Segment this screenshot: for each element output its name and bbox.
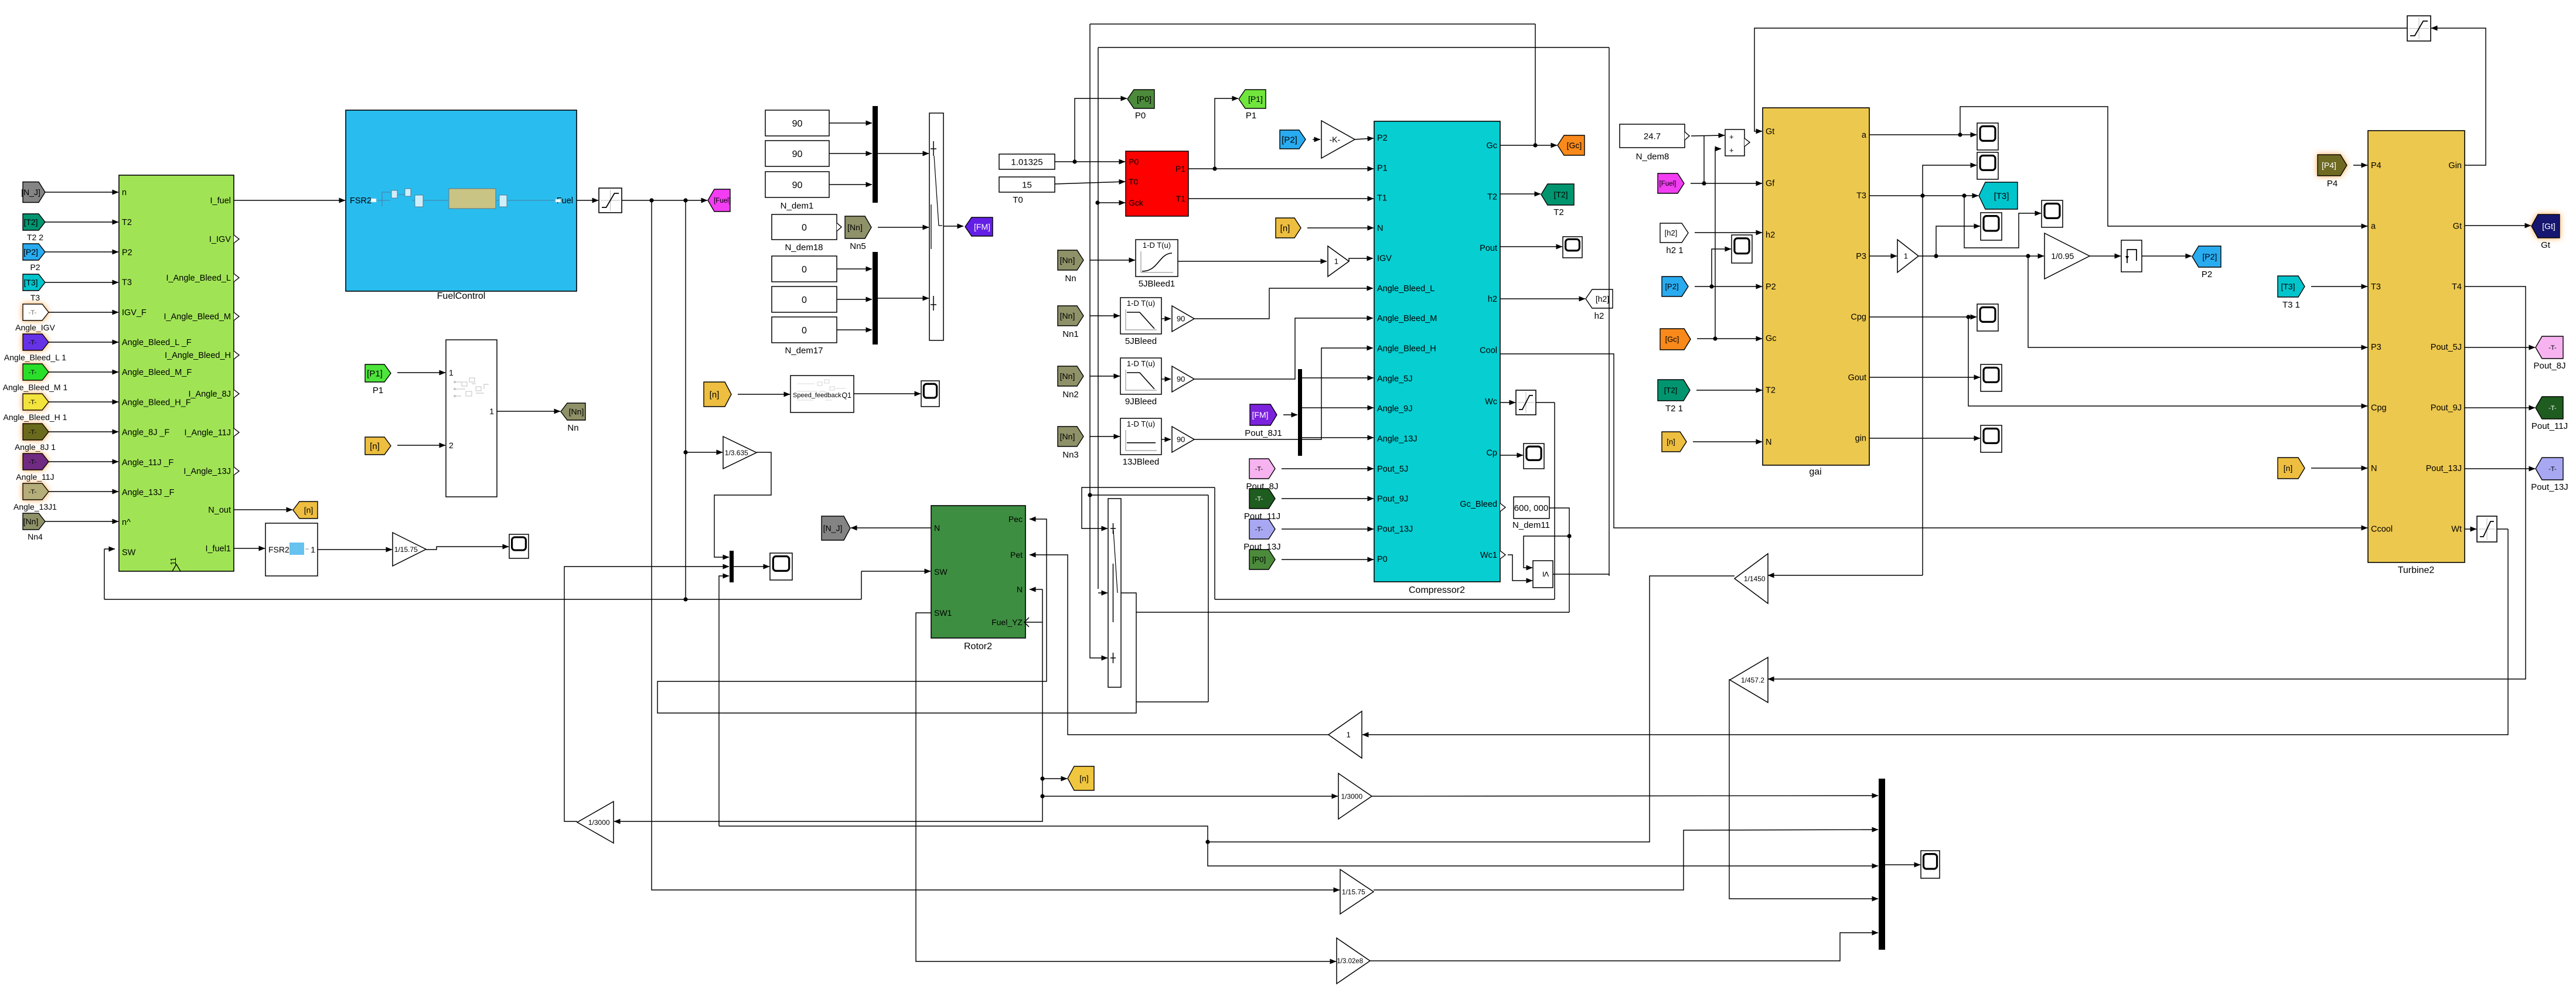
svg-text:[n]: [n]	[304, 506, 314, 515]
wire mux3 to scope	[734, 566, 769, 567]
wire mux to Angle_5J	[1302, 377, 1374, 378]
wire P0 junction to P0 goto	[1075, 98, 1127, 162]
svg-text:[P0]: [P0]	[1252, 555, 1266, 564]
gain 1/3000 (to mux5)	[1338, 773, 1372, 819]
constant 90 (N_dem1 row 3)	[765, 172, 829, 197]
wire n feedback vertical x1779	[1025, 589, 1045, 820]
goto tag n (rotor)	[1068, 766, 1094, 790]
svg-text:Angle_8J _F: Angle_8J _F	[122, 428, 170, 438]
wire from tag Nn4 to FuelSystem	[45, 521, 118, 522]
svg-text:[T3]: [T3]	[2281, 282, 2295, 291]
wire P2 tag to gai P2	[1695, 284, 1762, 288]
svg-text:Nn3: Nn3	[1062, 450, 1079, 460]
wire gai Cpg to scope	[1869, 315, 1977, 319]
subsystem ambient (red block)	[1126, 151, 1188, 216]
svg-text:90: 90	[1177, 435, 1185, 444]
wire switch2 out loop	[657, 519, 1136, 713]
svg-text:-T-: -T-	[1255, 466, 1263, 473]
svg-text:T3 1: T3 1	[2282, 300, 2300, 310]
lookup table 5JBleed1	[1136, 240, 1178, 277]
subsystem Rotor2 (green block)	[931, 506, 1029, 638]
saturation block Fuel limiter	[599, 188, 622, 213]
from tag n (gai)	[1662, 432, 1686, 452]
store read Angle_13J1	[23, 483, 49, 500]
svg-text:Pout_13J: Pout_13J	[2531, 482, 2568, 492]
goto tag h2	[1586, 289, 1613, 308]
svg-text:+: +	[1729, 146, 1734, 155]
svg-text:[Nn]: [Nn]	[1060, 311, 1075, 320]
svg-text:I_fuel: I_fuel	[210, 196, 231, 206]
wire mux5 to scope	[1885, 864, 1920, 865]
svg-text:h2: h2	[1766, 231, 1775, 240]
svg-text:N: N	[934, 523, 940, 533]
wire Pout_13J to compressor Pout_13J	[1282, 528, 1374, 530]
svg-text:Ccool: Ccool	[2371, 524, 2393, 534]
wire Pout_8J to compressor Pout_5J	[1282, 468, 1374, 469]
svg-text:T0: T0	[1013, 195, 1023, 205]
svg-text:[P2]: [P2]	[1282, 135, 1297, 145]
wire P1 junction to P1 goto	[1215, 98, 1238, 169]
subsystem gai (yellow block)	[1763, 108, 1869, 465]
goto tag FM	[965, 217, 993, 236]
svg-text:Nn2: Nn2	[1062, 390, 1079, 400]
svg-text:I_fuel1: I_fuel1	[205, 544, 231, 554]
constant 0 N_dem18	[772, 214, 841, 240]
gain 1/15.75 (FSR2 branch)	[393, 533, 426, 566]
from tag P2 (compressor)	[1280, 130, 1306, 149]
wire gain 1/457.2 to mux5 in4	[1729, 680, 1878, 899]
svg-text:0: 0	[802, 295, 807, 305]
svg-text:FuelControl: FuelControl	[437, 291, 486, 301]
wire gain 1/15.75R to mux5 in2	[1374, 830, 1878, 890]
svg-text:SW: SW	[934, 567, 948, 577]
svg-text:T1: T1	[1377, 194, 1387, 203]
constant 1.01325	[999, 154, 1055, 169]
from tag T3 1	[2278, 276, 2305, 297]
scope P3	[1981, 213, 2002, 240]
wire 13JBleed to gain 90	[1161, 439, 1171, 440]
wire gai gin to scope	[1869, 438, 1980, 439]
store read Pout_8J (compressor)	[1249, 459, 1275, 479]
wire gain 1/15.75 to scope	[426, 547, 509, 550]
wire from tag T2 2 to FuelSystem	[45, 221, 118, 223]
wire Nn3 to 13JBleed	[1090, 436, 1120, 437]
svg-text:1: 1	[489, 407, 494, 416]
gain 90 (9JBleed)	[1172, 366, 1194, 392]
wire feedback to mux3 in3	[719, 576, 729, 826]
lookup table 13JBleed	[1120, 418, 1161, 455]
subsystem Compressor2 (large teal block)	[1374, 121, 1505, 582]
goto tag P0	[1127, 90, 1154, 108]
wire red T1 to compressor T1	[1188, 198, 1374, 199]
svg-text:T3: T3	[1856, 192, 1866, 201]
from tag P0 (compressor)	[1249, 550, 1275, 569]
subsystem FSR2 mini block	[265, 523, 318, 576]
multiport switch N_dem	[929, 113, 943, 340]
svg-text:Compressor2: Compressor2	[1409, 585, 1465, 595]
gain 1/3.635	[723, 436, 757, 469]
svg-text:I_IGV: I_IGV	[209, 235, 231, 244]
svg-text:[FM]: [FM]	[1252, 410, 1269, 419]
svg-text:Angle_13J1: Angle_13J1	[13, 502, 57, 511]
svg-text:P2: P2	[1377, 134, 1388, 143]
gain -K-	[1321, 121, 1355, 158]
wire FSR2 to gain 1/15.75	[318, 549, 392, 550]
lookup table 9JBleed	[1120, 358, 1161, 394]
svg-text:Angle_5J: Angle_5J	[1377, 374, 1412, 384]
svg-text:-T-: -T-	[2548, 405, 2557, 412]
svg-text:T2: T2	[1487, 192, 1497, 202]
svg-text:-T-: -T-	[29, 309, 37, 316]
svg-text:T3: T3	[122, 278, 132, 288]
svg-text:N_out: N_out	[208, 506, 231, 515]
wire 15 to red T0	[1055, 182, 1125, 184]
wire fuel branch2 down	[685, 452, 686, 599]
gain 1/15.75 (to mux5)	[1340, 869, 1374, 914]
svg-text:a: a	[2371, 221, 2376, 231]
constant 600,000 N_dem11	[1514, 497, 1549, 519]
wire top loop Gc feedback (y41)	[1090, 24, 1535, 495]
wire h2 tag to gai h2	[1695, 232, 1762, 233]
goto tag Gc	[1558, 135, 1585, 155]
wire switch to FM goto	[943, 226, 963, 227]
svg-text:1: 1	[449, 368, 454, 377]
gain 90 (5JBleed)	[1172, 306, 1194, 332]
svg-text:1/3.635: 1/3.635	[725, 449, 748, 457]
svg-text:P1: P1	[373, 386, 383, 395]
svg-text:[Fuel]: [Fuel]	[714, 197, 731, 204]
wire store read Angle_13J1 to FuelSystem	[49, 491, 118, 492]
scope Cp	[1524, 444, 1544, 469]
svg-text:Pout_5J: Pout_5J	[1377, 465, 1408, 474]
wire 90 b to mux	[829, 153, 872, 154]
from tag h2 1	[1660, 223, 1688, 243]
svg-text:T2 2: T2 2	[27, 233, 43, 242]
wire n tag to turbine N	[2311, 468, 2367, 469]
wire gain 1/1450 out to junction	[719, 576, 1735, 844]
svg-text:Nn: Nn	[567, 423, 578, 433]
svg-text:Speed_feedback: Speed_feedback	[793, 392, 841, 399]
svg-text:1/0.95: 1/0.95	[2051, 251, 2074, 261]
wire 24.7 to sum in1	[1691, 135, 1725, 136]
from tag N_J (n)	[21, 182, 45, 203]
wire Nn2 to 9JBleed	[1090, 376, 1120, 377]
from tag Nn5	[845, 216, 871, 238]
subsystem FuelSystem (large green block)	[119, 175, 239, 571]
svg-text:Turbine2: Turbine2	[2398, 565, 2435, 575]
svg-text:[T2]: [T2]	[1664, 386, 1677, 395]
store read Angle_11J	[23, 453, 49, 470]
relational operator <=	[1533, 561, 1553, 588]
svg-text:[n]: [n]	[710, 390, 720, 400]
svg-text:-T-: -T-	[29, 429, 37, 436]
wire store read Angle_11J to FuelSystem	[49, 461, 118, 462]
from tag T2 1	[1658, 380, 1690, 401]
svg-text:Angle_11J _F: Angle_11J _F	[122, 458, 174, 468]
scope rotor	[770, 553, 792, 580]
gain 1/0.95	[2045, 233, 2090, 279]
subsystem Turbine2 (yellow block)	[2368, 131, 2465, 562]
svg-text:2: 2	[449, 441, 454, 450]
saturation block Gin limiter	[2407, 16, 2431, 41]
svg-text:IGV_F: IGV_F	[122, 308, 146, 318]
gain 1 (P3)	[1897, 240, 1919, 272]
constant 24.7 N_dem8	[1620, 124, 1689, 148]
wire Rotor2 SW1 loop	[916, 613, 1336, 961]
wire Wt sat out	[2497, 528, 2508, 530]
svg-text:T2 1: T2 1	[1665, 404, 1683, 414]
scope Cpg	[1977, 304, 1998, 331]
svg-text:[N_J]: [N_J]	[823, 524, 843, 533]
svg-text:Angle_Bleed_L: Angle_Bleed_L	[1377, 284, 1434, 294]
wire from tag P2 to FuelSystem	[45, 251, 118, 253]
wire Rotor2 N out to N_J goto	[851, 527, 931, 528]
wire Q1 to scope	[854, 393, 921, 394]
wire mux to Angle_13J	[1302, 437, 1374, 438]
svg-text:Rotor2: Rotor2	[964, 642, 992, 652]
wire 0 c to mux2	[837, 329, 872, 330]
wire T3 branch to scope	[1923, 165, 1977, 196]
store read Pout_13J (compressor)	[1249, 519, 1275, 539]
svg-text:Cpg: Cpg	[1851, 313, 1866, 322]
wire sum in1 branch down to Gf	[1702, 135, 1706, 186]
svg-text:Nn: Nn	[1065, 274, 1076, 284]
wire Pout_11J to compressor Pout_9J	[1282, 498, 1374, 499]
svg-text:Gout: Gout	[1848, 373, 1866, 383]
svg-text:I_Angle_13J: I_Angle_13J	[183, 467, 231, 476]
svg-text:[Nn]: [Nn]	[1060, 255, 1075, 265]
gain 1/3.02e8	[1337, 938, 1370, 984]
svg-text:SW: SW	[122, 548, 136, 557]
goto tag Nn	[561, 403, 585, 420]
svg-text:90: 90	[792, 180, 803, 190]
wire P0 tag to compressor P0	[1282, 559, 1374, 560]
svg-text:[n]: [n]	[1079, 774, 1089, 783]
svg-text:Pec: Pec	[1008, 514, 1023, 524]
store read Pout_11J (compressor)	[1249, 489, 1275, 509]
subsystem Speed_feedback	[790, 376, 854, 412]
svg-text:I_Angle_8J: I_Angle_8J	[188, 390, 231, 399]
svg-text:-T-: -T-	[29, 399, 37, 406]
svg-text:P2: P2	[30, 262, 40, 272]
from tag Nn4	[23, 513, 45, 530]
wire Nn1 to 5JBleed	[1090, 315, 1120, 316]
svg-text:P0: P0	[1135, 111, 1146, 121]
wire n tag to Speed_feedback	[738, 394, 790, 395]
goto tag Gt	[2531, 214, 2560, 238]
wire P1 tag to subsystem in1	[397, 372, 445, 373]
wire saturation to Fuel goto	[622, 198, 707, 202]
svg-text:[h2]: [h2]	[1596, 294, 1609, 303]
svg-text:[Gt]: [Gt]	[2542, 221, 2555, 231]
svg-text:[n]: [n]	[1667, 438, 1675, 446]
constant 90 (N_dem1 row 1)	[765, 110, 829, 136]
wire Cpg branch to turbine Cpg	[1968, 317, 2367, 406]
wire fuel branch to gain 1/3.635	[683, 200, 723, 455]
svg-text:1-D T(u): 1-D T(u)	[1143, 241, 1171, 250]
svg-text:Gt: Gt	[1766, 127, 1774, 137]
from tag Nn (IGV)	[1058, 250, 1083, 270]
wire Pout out to scope	[1500, 246, 1562, 247]
svg-text:[P2]: [P2]	[1665, 282, 1678, 291]
wire compressor Cool to turbine Ccool	[1500, 354, 2367, 528]
svg-text:90: 90	[792, 149, 803, 159]
scope T3 b	[2042, 200, 2063, 227]
subsystem speed calc (white block)	[446, 340, 497, 497]
goto tag n (N_out)	[293, 502, 318, 519]
from tag P4	[2318, 155, 2347, 176]
wire from tag T3 to FuelSystem	[45, 282, 118, 283]
svg-text:h2: h2	[1594, 311, 1604, 321]
svg-text:1-D T(u): 1-D T(u)	[1127, 359, 1155, 368]
svg-text:[T2]: [T2]	[23, 217, 38, 227]
mux display bus	[1879, 779, 1885, 950]
wire 90 c to mux	[829, 184, 872, 185]
wire Cp out to scope	[1500, 455, 1523, 456]
wire wrap y1045 (600000)	[1136, 612, 1569, 613]
wire T3 branch2 to scope4	[1964, 196, 2041, 248]
wire FM tag to mux	[1283, 414, 1297, 415]
wire 1/3000L to mux3 in2	[564, 567, 729, 821]
svg-text:90: 90	[1177, 315, 1185, 323]
constant 90 (N_dem1 row 2)	[765, 141, 829, 166]
from tag P1 (subsystem input)	[365, 364, 391, 382]
from tag Nn3	[1058, 427, 1083, 446]
wire 90 a to mux	[829, 122, 872, 124]
svg-text:P4: P4	[2371, 161, 2381, 170]
svg-text:[Fuel]: [Fuel]	[1660, 180, 1677, 187]
scope h2/P2	[1732, 235, 1752, 263]
svg-text:[n]: [n]	[370, 441, 380, 451]
wire subsystem out to Nn goto	[497, 411, 560, 412]
constant 0 (N_dem17 row 2)	[772, 286, 837, 312]
store read Angle_Bleed_L 1	[23, 334, 49, 350]
svg-text:-T-: -T-	[29, 459, 37, 466]
svg-text:Q1: Q1	[841, 391, 851, 400]
wire gain 1/3.635 to mux3 in1	[714, 452, 771, 557]
svg-text:[T3]: [T3]	[23, 278, 38, 287]
svg-text:+: +	[1729, 132, 1734, 141]
wire y1198 link	[1136, 495, 1208, 702]
svg-text:P3: P3	[2371, 343, 2381, 352]
mux N_dem17	[873, 252, 878, 344]
svg-text:600, 000: 600, 000	[1514, 503, 1548, 513]
wire P4 tag to turbine P4	[2353, 165, 2367, 166]
store read Angle_IGV	[23, 304, 49, 320]
wire h2 out to h2 goto	[1500, 298, 1585, 299]
svg-text:1/3000: 1/3000	[1341, 792, 1362, 800]
svg-text:Pout_9J: Pout_9J	[1377, 494, 1408, 504]
wire store read Angle_Bleed_L 1 to FuelSystem	[49, 342, 118, 343]
gain 90 (13JBleed)	[1172, 427, 1194, 452]
wire top loop to gai Gt	[1754, 28, 2407, 131]
svg-text:1.01325: 1.01325	[1011, 157, 1042, 167]
constant 15 (T0)	[999, 177, 1055, 192]
wire gai Gout to scope	[1869, 377, 1980, 378]
svg-text:Angle_Bleed_L _F: Angle_Bleed_L _F	[122, 338, 192, 347]
saturation block Wc limiter	[1516, 390, 1536, 415]
wire x1779 into Rotor2 N	[1030, 589, 1042, 590]
wire loop y81 to switch2 in2	[1098, 592, 1108, 593]
scope Pout	[1563, 237, 1582, 258]
wire gain 1L to Rotor2 Pet	[1030, 555, 1328, 735]
wire Fuel tag to gai Gf	[1691, 183, 1762, 184]
wire T3 branch to gain 1/1450	[1768, 575, 1923, 576]
svg-text:Pout_13J: Pout_13J	[2426, 464, 2462, 473]
wire Wt sat to gain 1L	[1362, 529, 2508, 735]
wire Wc sat out to wrap	[1536, 402, 1555, 403]
wire red P1 to compressor P1	[1188, 166, 1374, 170]
svg-text:Cpg: Cpg	[2371, 404, 2387, 413]
svg-text:P3: P3	[1856, 252, 1866, 261]
svg-text:N_dem11: N_dem11	[1512, 520, 1550, 530]
svg-text:Fuel_YZ: Fuel_YZ	[991, 618, 1023, 627]
wire FuelControl Fuel to saturation	[577, 200, 598, 201]
wire to red Gck	[1095, 200, 1125, 204]
svg-text:Nn1: Nn1	[1062, 329, 1079, 339]
wire gain 1/3000R to mux5 in1	[1372, 796, 1878, 796]
from tag n (Speed_feedback)	[704, 382, 731, 407]
from tag P2	[23, 244, 45, 260]
svg-text:-T-: -T-	[1255, 526, 1263, 533]
svg-text:0: 0	[802, 223, 807, 233]
svg-text:Gc: Gc	[1486, 141, 1497, 151]
svg-text:Pout_5J: Pout_5J	[2431, 343, 2462, 352]
wire FuelSystem I_fuel1 to FSR2	[234, 548, 265, 549]
svg-text:P0: P0	[1377, 555, 1388, 564]
wire FuelSystem N_out to n goto	[234, 509, 292, 510]
wire turbine Pout_13J to Pout_13J goto	[2465, 468, 2535, 469]
scope gin	[1981, 425, 2002, 452]
from tag Nn2	[1058, 366, 1083, 386]
svg-text:T3: T3	[30, 293, 40, 302]
svg-text:Pout_9J: Pout_9J	[2431, 404, 2462, 413]
svg-text:P2: P2	[2202, 270, 2212, 279]
svg-text:Angle_Bleed_M: Angle_Bleed_M	[1377, 314, 1437, 323]
wire turbine Wt to saturation	[2465, 528, 2476, 530]
wire turbine Pout_9J to Pout_11J goto	[2465, 407, 2535, 408]
svg-text:Nn5: Nn5	[850, 241, 866, 251]
scope T3	[1977, 152, 1998, 179]
gain 1 (IGV)	[1328, 246, 1349, 277]
svg-text:Wt: Wt	[2451, 524, 2462, 534]
svg-text:T2: T2	[1553, 207, 1564, 217]
svg-text:n^: n^	[122, 518, 131, 527]
svg-text:Angle_8J 1: Angle_8J 1	[15, 442, 56, 452]
svg-text:N_dem18: N_dem18	[785, 243, 823, 253]
svg-text:Angle_13J: Angle_13J	[1377, 435, 1418, 444]
svg-text:a: a	[1862, 131, 1867, 140]
svg-text:T2: T2	[122, 218, 132, 227]
svg-text:Wc: Wc	[1485, 397, 1497, 407]
svg-text:Pout_11J: Pout_11J	[2531, 421, 2568, 431]
svg-text:N: N	[1766, 438, 1771, 447]
wire loop to relational in1	[1524, 534, 1572, 568]
svg-text:Angle_Bleed_H 1: Angle_Bleed_H 1	[4, 412, 67, 422]
wire memory to P2 goto	[2142, 255, 2192, 257]
wire mux N_dem17 to switch	[878, 298, 929, 299]
svg-text:N: N	[2371, 464, 2377, 473]
svg-text:-K-: -K-	[1329, 135, 1340, 144]
wire gain -K- to compressor P2	[1355, 138, 1374, 139]
svg-text:Gc: Gc	[1766, 334, 1777, 343]
svg-text:[Nn]: [Nn]	[23, 517, 39, 526]
wire 600000 out down	[1549, 508, 1569, 612]
goto tag Fuel	[708, 189, 731, 212]
svg-text:Angle_9J: Angle_9J	[1377, 404, 1412, 414]
svg-text:[Gc]: [Gc]	[1567, 141, 1582, 150]
mux Angle_xJ	[1298, 369, 1302, 456]
